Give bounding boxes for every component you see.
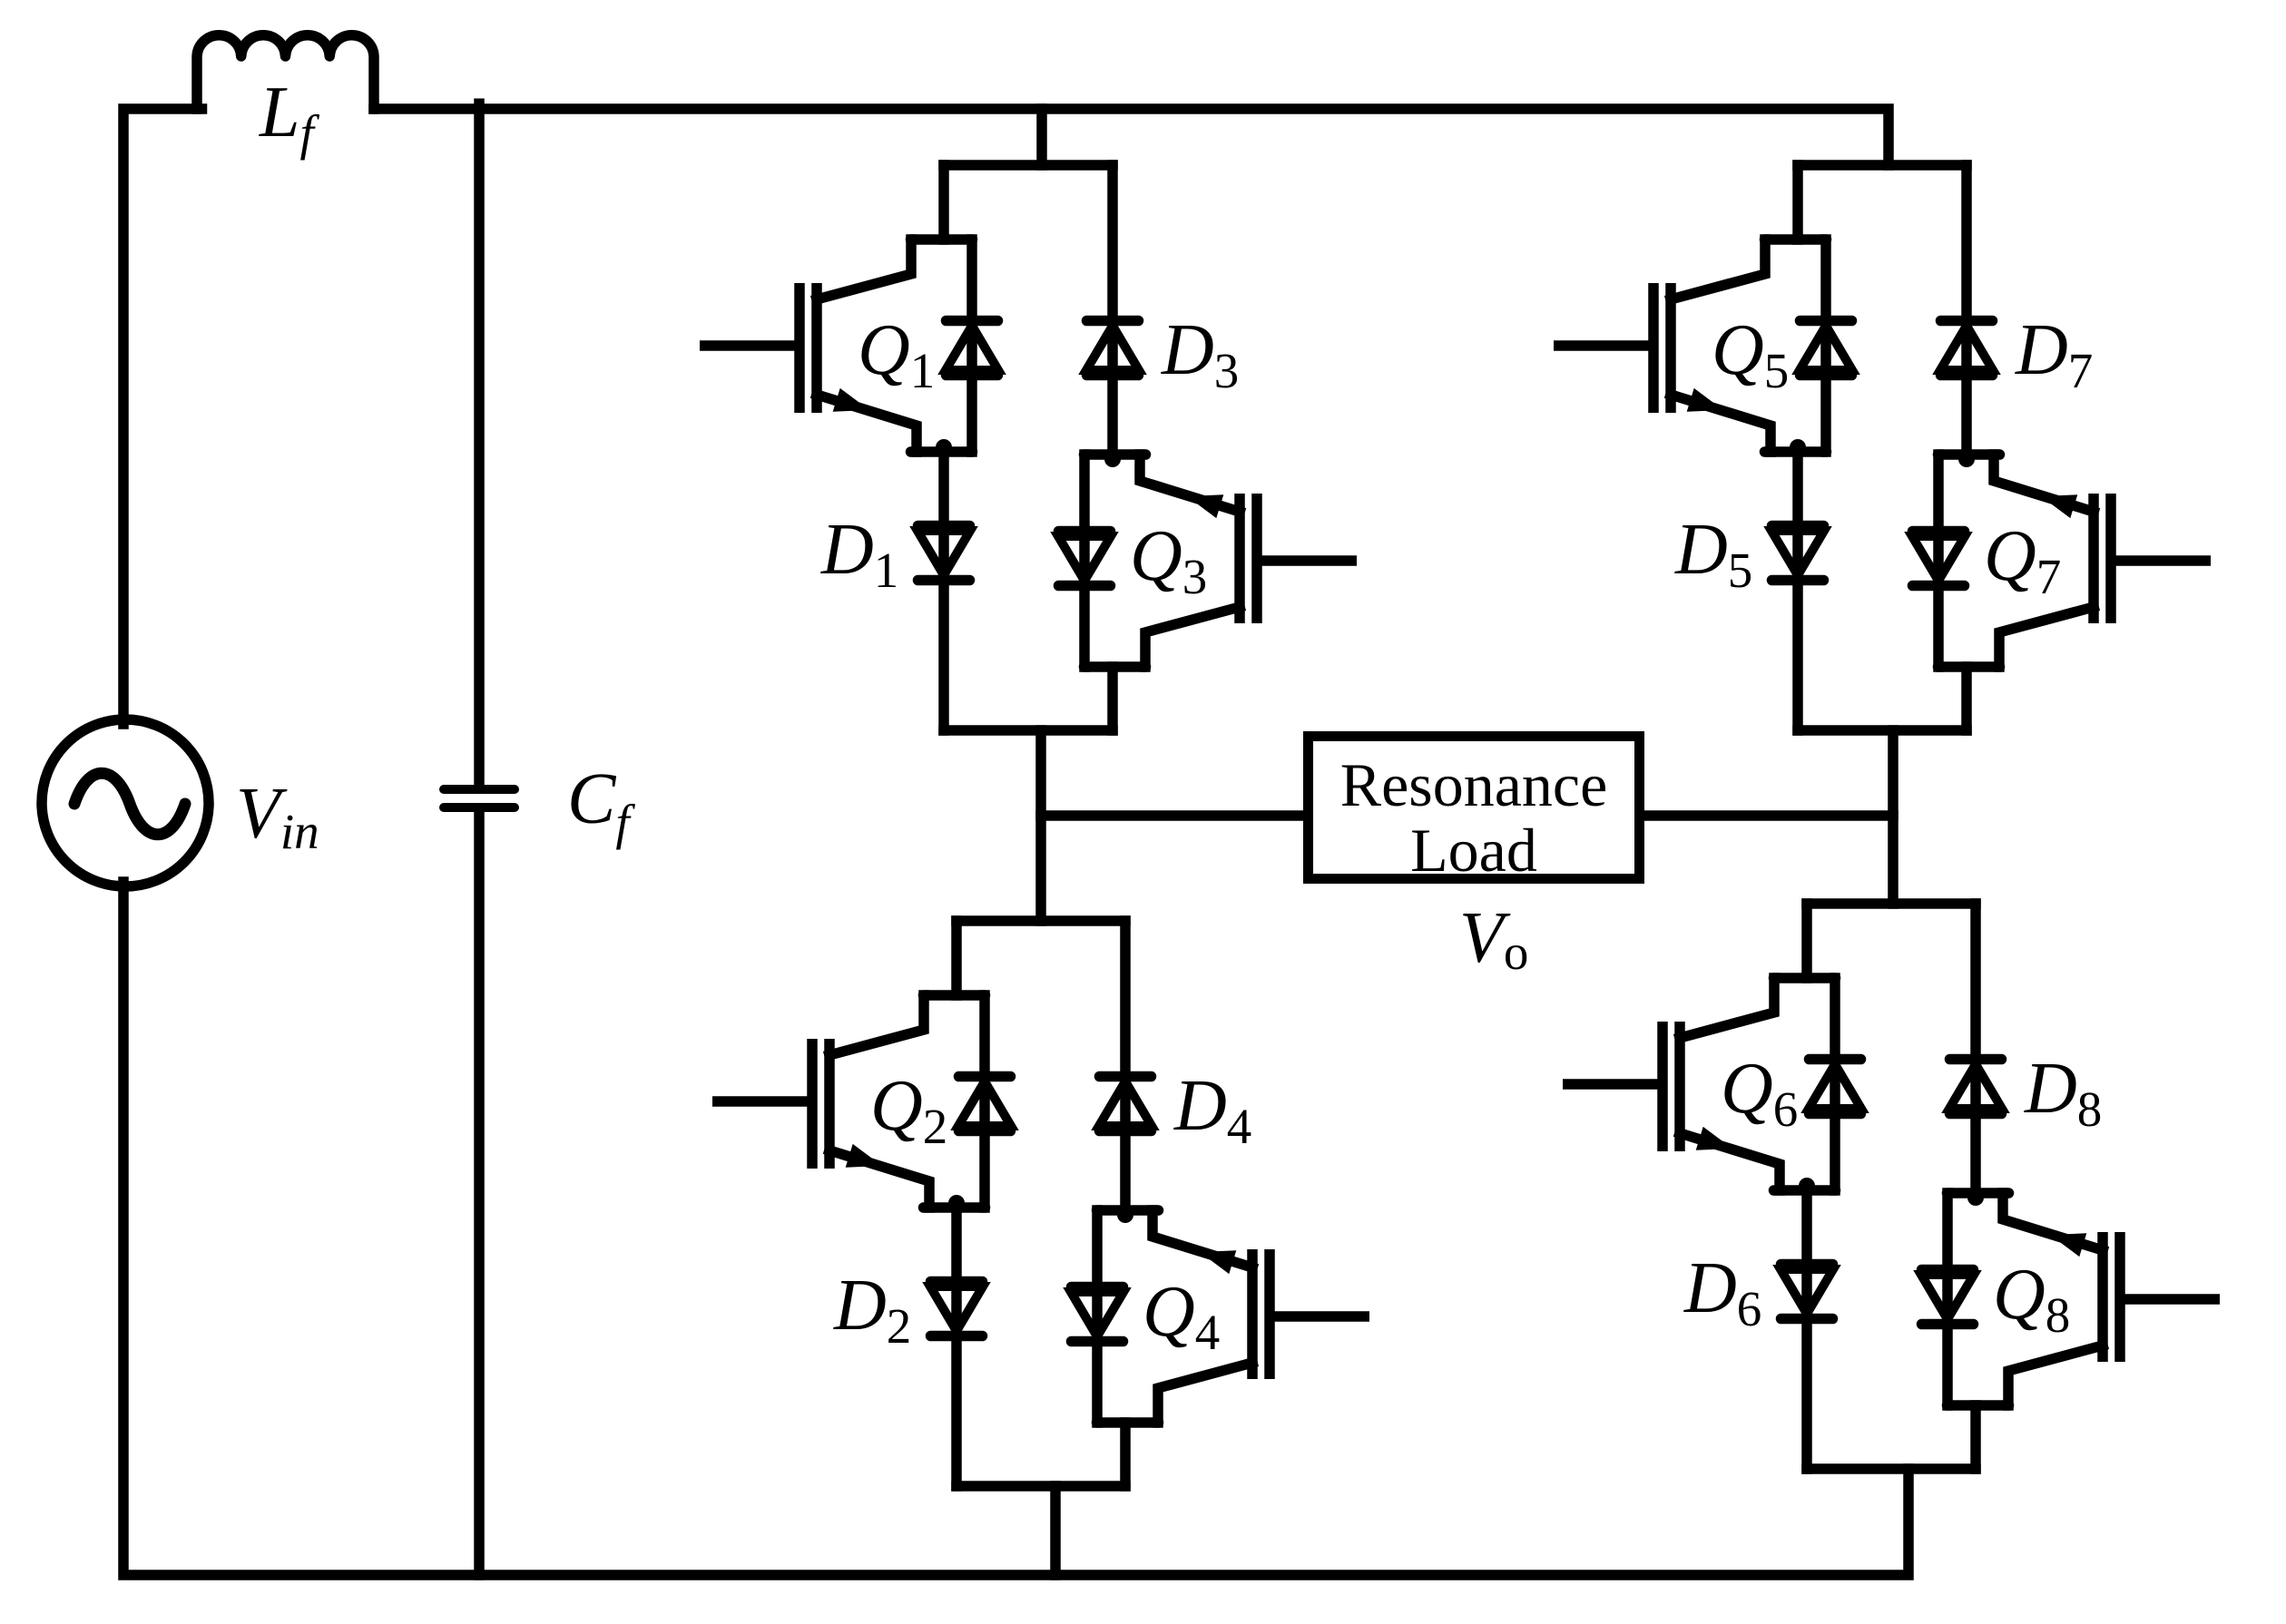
wire cell1 bottom rail <box>944 725 1113 736</box>
source Vin (AC source circle with sine) <box>42 719 209 886</box>
wire cell1 right branch through D3 <box>1107 165 1118 455</box>
wire Q6 collector stub <box>1801 904 1812 978</box>
wire Q1 emitter through D1 to cell1 bottom rail <box>938 452 949 730</box>
transistor Q7 (IGBT with antiparallel diode, mirrored) <box>1912 455 2211 667</box>
diode D7 (series, points up) <box>1940 321 1993 376</box>
transistor Q4 (IGBT with antiparallel diode, mirrored) <box>1071 1210 1369 1423</box>
node Q2 emitter junction dot <box>948 1195 965 1211</box>
transistor Q8 (IGBT with antiparallel diode, mirrored) <box>1921 1193 2220 1405</box>
wire cell3 right branch through D4 <box>1120 921 1131 1210</box>
wire Q7 to cell2 bottom rail <box>1961 667 1972 730</box>
wire Q5 emitter through D5 to cell2 bottom rail <box>1792 452 1803 730</box>
wire cell2 right branch through D7 <box>1961 165 1972 455</box>
diode D1 (series, points down) <box>917 526 970 581</box>
diode D6 (series, points down) <box>1781 1265 1833 1319</box>
wire right mid column (cell2 bottom to cell4 top) <box>1888 730 1898 904</box>
diode D2 (series, points down) <box>930 1282 983 1336</box>
wire Q1 collector stub <box>938 165 949 240</box>
wire Q6 emitter through D6 to cell4 bottom rail <box>1801 1190 1812 1469</box>
wire top bus with right corner down to cell2 <box>374 109 1889 165</box>
wire cell4 right branch through D8 <box>1970 904 1981 1193</box>
wire cell4 top rail <box>1807 898 1976 909</box>
svg-text:Load: Load <box>1410 816 1537 885</box>
wire cell3 top rail <box>957 915 1125 926</box>
wire load right lead <box>1640 810 1893 821</box>
svg-text:Resonance: Resonance <box>1340 750 1608 819</box>
diode D3 (series, points up) <box>1086 321 1139 376</box>
diode D4 (series, points up) <box>1099 1077 1152 1131</box>
transistor Q1 (IGBT with antiparallel diode) <box>700 240 998 452</box>
resonance load box <box>1309 737 1640 885</box>
node Q3 emitter junction dot <box>1104 451 1121 467</box>
inductor Lf <box>197 35 374 114</box>
wire left mid column (cell1 bottom to cell3 top) <box>1035 730 1046 921</box>
node Q1 emitter junction dot <box>936 439 952 455</box>
wire Q4 to cell3 bottom rail <box>1120 1423 1131 1486</box>
transistor Q3 (IGBT with antiparallel diode, mirrored) <box>1058 455 1357 667</box>
wire left rail (top segment) and top-left corner <box>123 109 202 724</box>
wire Q2 collector stub <box>951 921 962 995</box>
node Q7 emitter junction dot <box>1958 451 1975 467</box>
wire Cf branch (upper) <box>474 103 485 785</box>
wire cell2 bottom rail <box>1798 725 1967 736</box>
wire load left lead <box>1041 810 1308 821</box>
wire cell1 top rail <box>944 160 1113 171</box>
wire cell4 bottom rail <box>1807 1463 1976 1474</box>
wire Q2 emitter through D2 to cell3 bottom rail <box>951 1208 962 1486</box>
diode D5 (series, points down) <box>1771 526 1824 581</box>
node Q5 emitter junction dot <box>1790 439 1806 455</box>
node Q4 emitter junction dot <box>1117 1207 1133 1223</box>
node Q8 emitter junction dot <box>1967 1189 1984 1206</box>
wire cell2 top rail <box>1798 160 1967 171</box>
node Q6 emitter junction dot <box>1799 1178 1815 1194</box>
wire Cf branch (lower) <box>474 812 485 1575</box>
wire Q8 to cell4 bottom rail <box>1970 1405 1981 1469</box>
diode D8 (series, points up) <box>1949 1060 2002 1114</box>
wire cell1 top stub <box>1036 109 1047 165</box>
wire left rail (bottom segment), bottom bus, and cell4 bottom stub <box>123 882 1908 1575</box>
transistor Q5 (IGBT with antiparallel diode) <box>1554 240 1852 452</box>
wire cell3 bottom rail <box>957 1481 1125 1492</box>
wire Q5 collector stub <box>1792 165 1803 240</box>
wire Q3 to cell1 bottom rail <box>1107 667 1118 730</box>
transistor Q2 (IGBT with antiparallel diode) <box>712 995 1011 1208</box>
transistor Q6 (IGBT with antiparallel diode) <box>1563 978 1861 1190</box>
wire cell3 bottom stub <box>1050 1486 1061 1575</box>
capacitor Cf <box>444 789 515 807</box>
